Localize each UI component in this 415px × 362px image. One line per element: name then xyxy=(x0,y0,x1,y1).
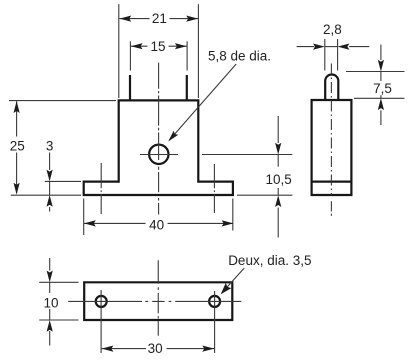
svg-text:10: 10 xyxy=(43,295,58,310)
dimension 40 extension lines xyxy=(83,199,85,236)
dimension 3 dimension line xyxy=(49,153,51,171)
side view pin outline xyxy=(325,74,338,100)
leader Deux line and arrowhead xyxy=(222,268,245,293)
svg-text:10,5: 10,5 xyxy=(265,172,291,187)
front view pin left edge xyxy=(129,75,131,100)
bottom view rectangle outline xyxy=(84,282,232,320)
svg-text:40: 40 xyxy=(149,218,164,233)
dimension 25 extension lines xyxy=(9,100,116,102)
front view hole circle xyxy=(149,145,168,164)
bottom view left hole centerline / 30 extension xyxy=(100,290,102,353)
dimension 25 dimension line xyxy=(16,101,18,136)
side view body outline xyxy=(312,100,352,195)
dimension 2,8 extension lines xyxy=(324,39,326,71)
svg-text:30: 30 xyxy=(148,341,163,356)
side view flange edge line xyxy=(312,181,352,183)
front view pin right edge xyxy=(186,75,188,100)
bottom view right hole centerline / 30 extension xyxy=(214,291,216,353)
dimension 21 dimension line xyxy=(120,18,150,20)
svg-text:3: 3 xyxy=(46,139,54,154)
dimension 15 extension lines xyxy=(129,41,131,70)
dimension 7,5 extension lines xyxy=(346,71,405,73)
dimension 7,5 dimension line xyxy=(380,45,382,61)
svg-text:2,8: 2,8 xyxy=(323,22,342,37)
bottom view left hole xyxy=(96,296,107,307)
bottom view vertical centerline xyxy=(157,260,159,335)
dimension 3 extension line xyxy=(45,180,81,182)
dimension 30 dimension line xyxy=(102,348,146,350)
dimension 10,5 extension lines xyxy=(202,154,292,156)
dimension 15 dimension line xyxy=(130,45,147,47)
front view left flange-hole centerline xyxy=(100,163,102,214)
front view hole horizontal crosshair xyxy=(140,154,178,156)
svg-text:21: 21 xyxy=(152,11,167,26)
dimension 2,8 dimension line xyxy=(297,46,315,48)
svg-text:25: 25 xyxy=(10,138,25,153)
front view vertical centerline xyxy=(158,63,160,215)
side view vertical centerline xyxy=(330,64,332,196)
front view right flange-hole centerline xyxy=(213,164,215,213)
bottom view horizontal centerline xyxy=(68,300,241,302)
svg-text:7,5: 7,5 xyxy=(373,81,392,96)
dimension 10 dimension line xyxy=(49,258,51,271)
dimension 10 extension lines xyxy=(39,281,78,283)
dimension 10,5 dimension line xyxy=(277,116,279,143)
svg-text:15: 15 xyxy=(150,39,165,54)
bottom view right hole xyxy=(209,296,220,307)
leader 5,8 line and arrowhead xyxy=(169,64,236,140)
dimension 21 extension lines xyxy=(118,4,120,98)
front view body outline xyxy=(84,100,233,195)
dimension 40 dimension line xyxy=(84,222,146,224)
svg-text:5,8 de dia.: 5,8 de dia. xyxy=(208,48,271,63)
svg-text:Deux, dia. 3,5: Deux, dia. 3,5 xyxy=(228,253,311,268)
